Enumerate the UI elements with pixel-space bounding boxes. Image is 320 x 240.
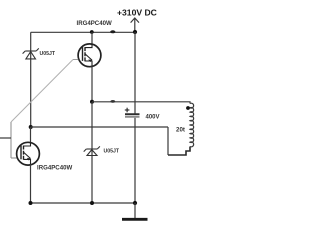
svg-text:+310V DC: +310V DC bbox=[117, 8, 157, 18]
junction dot node A left bbox=[29, 125, 33, 129]
wire gate vertical bbox=[10, 122, 12, 158]
wire node A horizontal bbox=[31, 126, 168, 128]
wire Q2 emitter bbox=[30, 164, 32, 203]
junction dot on coil wire bbox=[110, 100, 115, 103]
svg-text:U05JT: U05JT bbox=[40, 51, 56, 57]
wire left vertical bbox=[30, 32, 32, 127]
wire gate diagonal bbox=[11, 60, 73, 123]
junction dot bottom left bbox=[29, 201, 33, 205]
zener diode D2 U05JT bbox=[84, 146, 100, 155]
capacitor C1 plus sign bbox=[125, 108, 130, 113]
wire V2 middle vertical bbox=[91, 102, 93, 203]
ground stub bbox=[134, 203, 136, 218]
junction dot on rail bbox=[110, 30, 115, 33]
junction dot emitter/coil tee bbox=[90, 100, 94, 104]
wire supply vertical to cap bbox=[134, 32, 136, 114]
inductor L1 winding bbox=[190, 103, 194, 147]
svg-text:IRG4PC40W: IRG4PC40W bbox=[77, 20, 112, 27]
capacitor C1 plates bbox=[125, 113, 140, 115]
transistor IGBT Q1 IRG4PC40W bbox=[78, 44, 101, 67]
ground bar bbox=[122, 218, 148, 221]
wire coil top horizontal bbox=[92, 102, 190, 104]
svg-text:20t: 20t bbox=[176, 127, 185, 134]
wire node A right corner down bbox=[167, 127, 169, 155]
wire Q1 emitter bbox=[91, 66, 93, 102]
junction dot bottom middle bbox=[90, 201, 94, 205]
junction dot bottom ground bbox=[133, 201, 137, 205]
svg-text:IRG4PC40W: IRG4PC40W bbox=[37, 165, 72, 172]
wire coil bottom jog bbox=[168, 147, 190, 156]
transistor IGBT Q2 IRG4PC40W bbox=[17, 142, 40, 165]
svg-text:400V: 400V bbox=[146, 115, 160, 121]
wire Q2 collector bbox=[30, 127, 32, 142]
junction dot rail/Q1 collector bbox=[90, 30, 94, 34]
zener diode D1 U05JT bbox=[23, 48, 39, 59]
wire top rail bbox=[31, 31, 135, 33]
junction dot rail/supply bbox=[133, 30, 137, 34]
polarity dot L1 bbox=[186, 106, 190, 110]
wire cap bottom vertical bbox=[134, 118, 136, 203]
wire bottom rail bbox=[31, 202, 136, 204]
wire Q1 gate stub bbox=[73, 59, 78, 61]
svg-text:U05JT: U05JT bbox=[104, 149, 120, 155]
wire drive input from edge bbox=[0, 137, 11, 139]
wire Q1 collector bbox=[91, 32, 93, 44]
wire gate to Q2 bbox=[11, 157, 17, 159]
supply arrow bbox=[131, 18, 139, 32]
